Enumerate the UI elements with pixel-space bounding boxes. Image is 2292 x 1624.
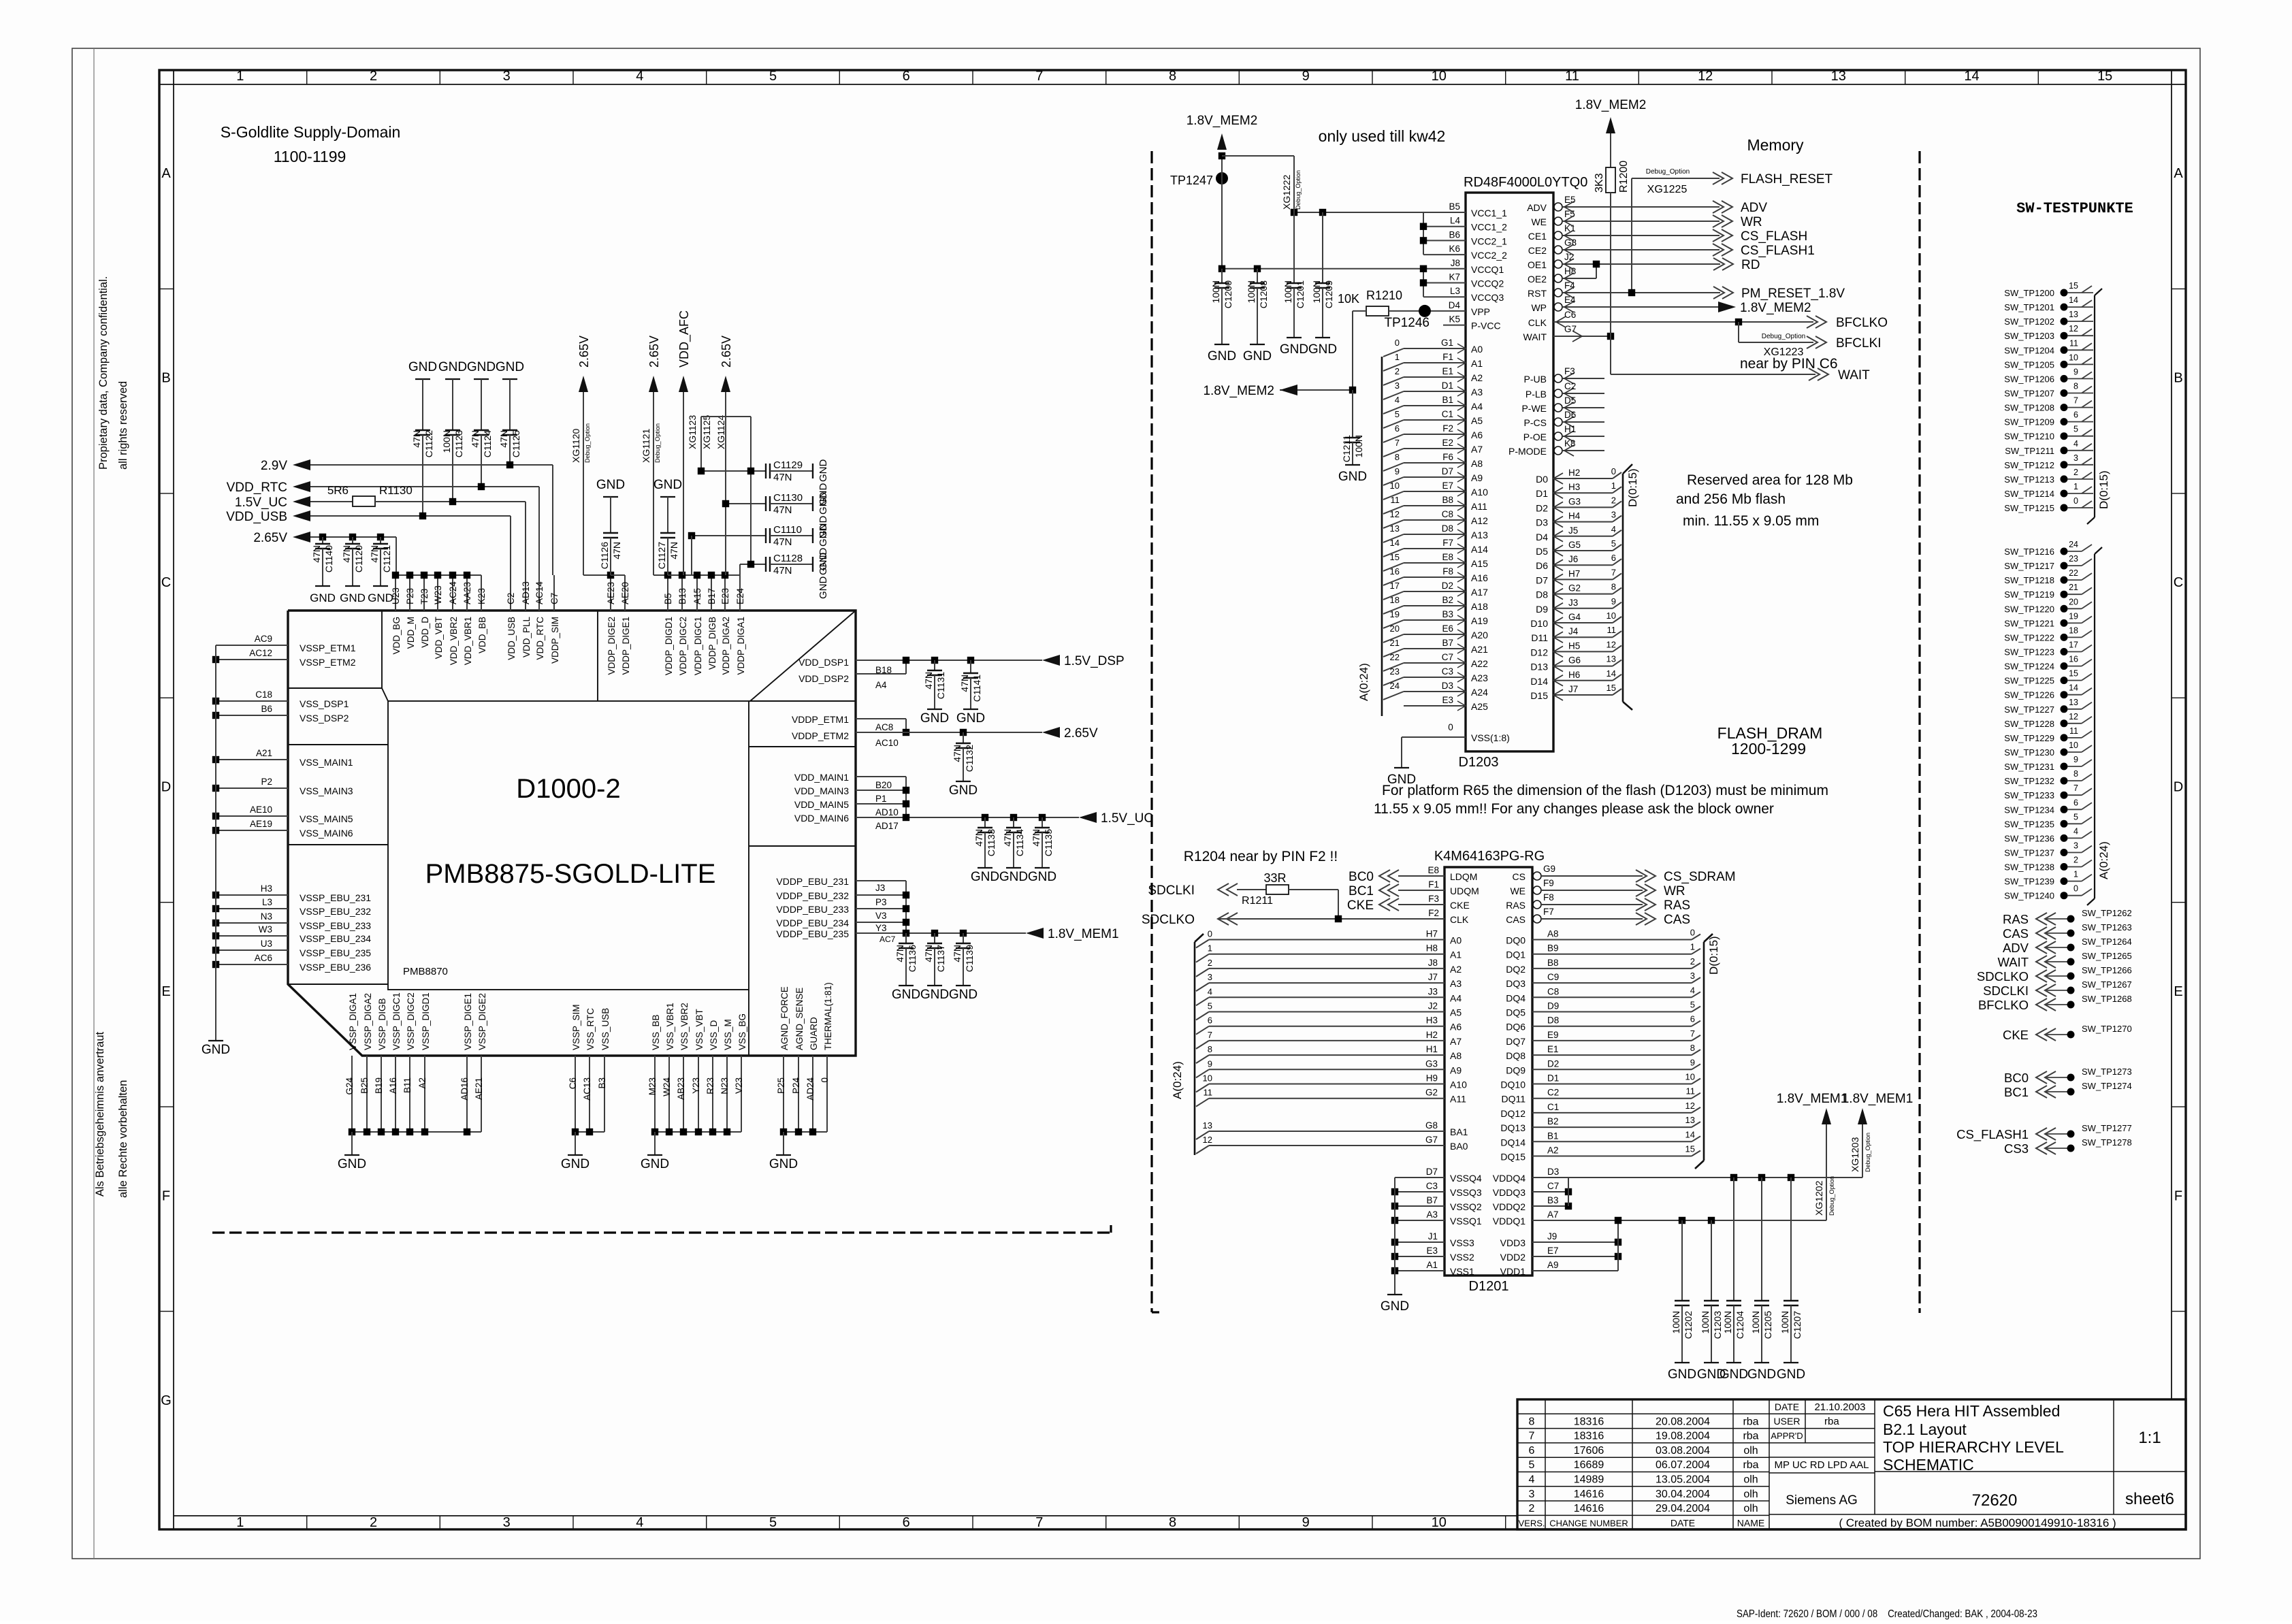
svg-text:C7: C7 — [1547, 1181, 1559, 1191]
svg-text:A4: A4 — [1450, 992, 1462, 1003]
svg-text:5: 5 — [769, 69, 777, 84]
capacitor C1135 — [1039, 814, 1046, 821]
svg-text:H3: H3 — [1568, 482, 1580, 492]
wire 2.9V — [310, 464, 553, 466]
ground C1201 — [1287, 337, 1302, 338]
svg-text:D3: D3 — [1547, 1167, 1559, 1177]
svg-text:D4: D4 — [1536, 532, 1548, 542]
svg-text:F6: F6 — [1442, 452, 1453, 462]
svg-text:CAS: CAS — [1664, 913, 1690, 927]
svg-text:SW_TP1273: SW_TP1273 — [2082, 1067, 2132, 1077]
ic internal partitions — [381, 611, 383, 688]
capacitor C1110 — [692, 535, 766, 536]
svg-text:Y23: Y23 — [691, 1077, 701, 1094]
svg-text:TP1246: TP1246 — [1384, 316, 1430, 330]
resistor R1130 — [310, 501, 353, 502]
ground bottom group — [351, 1132, 353, 1155]
svg-text:C8: C8 — [1442, 509, 1453, 519]
svg-text:14: 14 — [1607, 668, 1616, 679]
capacitor C1131 — [931, 657, 938, 664]
svg-text:4: 4 — [2073, 826, 2078, 836]
bus A(0:24) tp — [2094, 554, 2095, 898]
svg-text:B7: B7 — [1442, 638, 1453, 648]
svg-text:D5: D5 — [1564, 395, 1576, 406]
svg-text:F: F — [162, 1188, 170, 1203]
wire VDDP_DIGD junction — [668, 574, 740, 576]
svg-text:C2: C2 — [1564, 381, 1576, 391]
svg-text:G9: G9 — [1543, 864, 1555, 874]
debug option XG1222 — [1222, 155, 1294, 157]
svg-text:17: 17 — [1390, 581, 1400, 591]
svg-text:VDDP_ETM1: VDDP_ETM1 — [792, 714, 849, 725]
capacitor C1120 — [349, 534, 356, 540]
svg-text:AA23: AA23 — [462, 582, 472, 604]
svg-text:14616: 14616 — [1574, 1503, 1604, 1514]
wire WR out — [1562, 221, 1720, 222]
svg-text:Debug_Option: Debug_Option — [584, 423, 591, 463]
capacitor C1201 — [1293, 212, 1295, 283]
svg-text:BA0: BA0 — [1450, 1141, 1468, 1152]
svg-text:J2: J2 — [1428, 1001, 1438, 1011]
svg-text:K6: K6 — [1449, 244, 1460, 254]
svg-text:N23: N23 — [720, 1077, 730, 1094]
svg-text:5: 5 — [769, 1515, 777, 1530]
svg-text:J1: J1 — [1428, 1231, 1438, 1241]
svg-text:P-VCC: P-VCC — [1471, 321, 1501, 331]
svg-text:VSS_BG: VSS_BG — [737, 1013, 747, 1050]
ground C1129 — [812, 464, 813, 478]
svg-text:DATE: DATE — [1775, 1401, 1799, 1412]
svg-text:B19: B19 — [374, 1077, 384, 1094]
svg-text:F9: F9 — [1543, 878, 1554, 888]
capacitor C1204 — [1733, 1178, 1734, 1301]
svg-text:10: 10 — [1685, 1072, 1695, 1082]
svg-text:2: 2 — [1611, 495, 1616, 505]
svg-text:J4: J4 — [1568, 626, 1579, 636]
svg-text:8: 8 — [2073, 769, 2078, 779]
svg-text:VSS_RTC: VSS_RTC — [585, 1008, 596, 1050]
svg-text:CE2: CE2 — [1528, 245, 1547, 256]
svg-text:E3: E3 — [1426, 1246, 1438, 1256]
svg-text:VSS_M: VSS_M — [723, 1019, 733, 1050]
svg-text:K5: K5 — [1449, 314, 1460, 325]
svg-text:SW_TP1224: SW_TP1224 — [2004, 662, 2054, 672]
svg-text:B8: B8 — [1547, 958, 1559, 968]
wire P-VCC stub — [1443, 325, 1466, 326]
svg-text:F3: F3 — [1428, 894, 1439, 904]
wire RST PM_RESET — [1562, 292, 1720, 293]
svg-text:L3: L3 — [1450, 286, 1460, 296]
wire VCC1_1 net — [1423, 212, 1466, 213]
svg-text:C1135: C1135 — [1043, 829, 1054, 856]
svg-text:AC9: AC9 — [255, 634, 272, 644]
svg-text:SW_TP1229: SW_TP1229 — [2004, 733, 2054, 743]
svg-text:VDD_M: VDD_M — [406, 617, 416, 649]
svg-text:AB23: AB23 — [676, 1077, 686, 1100]
svg-text:14: 14 — [1964, 69, 1979, 84]
ground C1211 — [1345, 464, 1360, 466]
svg-text:AD10: AD10 — [875, 807, 899, 817]
svg-text:VSSP_EBU_236: VSSP_EBU_236 — [300, 962, 371, 973]
svg-text:10: 10 — [1432, 69, 1447, 84]
svg-text:J5: J5 — [1568, 525, 1578, 536]
svg-text:5R6: 5R6 — [327, 484, 349, 497]
svg-text:XG1120: XG1120 — [570, 428, 581, 463]
svg-text:SW_TP1234: SW_TP1234 — [2004, 805, 2054, 815]
svg-text:2: 2 — [1395, 366, 1400, 376]
svg-text:olh: olh — [1743, 1503, 1758, 1514]
svg-text:VDD_MAIN5: VDD_MAIN5 — [794, 799, 849, 810]
svg-text:10K: 10K — [1338, 292, 1359, 306]
svg-text:CKE: CKE — [2003, 1028, 2029, 1042]
capacitor C1139 — [960, 930, 967, 937]
svg-text:VDDP_ETM2: VDDP_ETM2 — [792, 730, 849, 741]
wire vdd tie — [1532, 1241, 1618, 1243]
svg-text:D8: D8 — [1547, 1016, 1559, 1026]
svg-text:14: 14 — [1685, 1129, 1695, 1139]
svg-text:3: 3 — [1611, 510, 1616, 520]
svg-text:A9: A9 — [1471, 472, 1483, 483]
svg-text:alle Rechte vorbehalten: alle Rechte vorbehalten — [117, 1080, 129, 1198]
svg-text:D7: D7 — [1536, 574, 1548, 585]
svg-text:C1124: C1124 — [482, 430, 493, 457]
svg-text:GND: GND — [561, 1157, 590, 1171]
wire VDDP_DIGE junction — [611, 574, 625, 576]
svg-text:B: B — [161, 371, 170, 386]
svg-text:B2: B2 — [1442, 595, 1453, 605]
svg-text:VDDP_DIGC1: VDDP_DIGC1 — [693, 617, 703, 675]
svg-text:4: 4 — [1529, 1474, 1535, 1486]
svg-text:VDDQ3: VDDQ3 — [1493, 1187, 1526, 1198]
svg-text:GND: GND — [892, 988, 920, 1002]
svg-text:J6: J6 — [1568, 554, 1578, 564]
svg-text:H3: H3 — [261, 883, 272, 894]
wire WAIT out — [1553, 336, 1611, 337]
svg-text:DQ2: DQ2 — [1506, 964, 1526, 975]
wire CS_FLASH1 out — [1562, 249, 1720, 250]
svg-text:all rights reserved: all rights reserved — [117, 381, 129, 470]
svg-text:E3: E3 — [1442, 695, 1453, 705]
svg-text:19.08.2004: 19.08.2004 — [1656, 1431, 1710, 1442]
svg-text:VDDP_EBU_232: VDDP_EBU_232 — [776, 890, 849, 901]
svg-text:C1126: C1126 — [599, 542, 610, 569]
net 2.65V right — [1042, 727, 1060, 738]
svg-text:PM_RESET_1.8V: PM_RESET_1.8V — [1741, 287, 1845, 301]
flash VSS pin — [1402, 736, 1466, 738]
capacitor C1205 — [1761, 1178, 1762, 1301]
svg-text:VSSP_DIGC1: VSSP_DIGC1 — [391, 992, 402, 1050]
svg-text:C6: C6 — [1564, 310, 1576, 320]
ground C1207 — [1783, 1362, 1798, 1363]
svg-text:B17: B17 — [707, 588, 717, 604]
svg-text:SW_TP1226: SW_TP1226 — [2004, 690, 2054, 700]
capacitor C1132 — [960, 729, 967, 736]
svg-text:Propietary data, Company confi: Propietary data, Company confidential. — [97, 276, 110, 470]
svg-text:DQ14: DQ14 — [1500, 1137, 1526, 1148]
svg-text:A24: A24 — [1471, 687, 1488, 698]
svg-text:100N: 100N — [1282, 280, 1293, 303]
svg-text:D8: D8 — [1442, 523, 1453, 534]
svg-text:D3: D3 — [1536, 517, 1548, 528]
svg-text:AD24: AD24 — [805, 1077, 816, 1101]
svg-text:VCC2_2: VCC2_2 — [1471, 250, 1507, 261]
svg-text:VSSQ3: VSSQ3 — [1450, 1187, 1482, 1198]
svg-text:C1: C1 — [1442, 409, 1453, 419]
svg-text:VDD_VBR1: VDD_VBR1 — [463, 617, 473, 665]
svg-text:XG1123: XG1123 — [687, 415, 698, 449]
svg-text:rba: rba — [1743, 1459, 1758, 1471]
svg-text:14: 14 — [2069, 683, 2078, 693]
svg-text:CS_FLASH1: CS_FLASH1 — [1741, 244, 1815, 258]
svg-text:GND: GND — [818, 524, 829, 547]
svg-text:VSS3: VSS3 — [1450, 1237, 1474, 1248]
svg-text:VSSP_DIGD1: VSSP_DIGD1 — [421, 992, 431, 1050]
svg-text:C1201: C1201 — [1295, 280, 1306, 308]
svg-text:GND: GND — [1720, 1367, 1748, 1382]
ic D1203 RD48F4000L0YTQ0 outline — [1466, 193, 1553, 751]
svg-text:R1204 near by PIN F2 !!: R1204 near by PIN F2 !! — [1184, 849, 1338, 864]
svg-text:GND: GND — [818, 459, 829, 483]
svg-text:0: 0 — [1208, 929, 1212, 939]
svg-text:B25: B25 — [359, 1077, 370, 1094]
svg-text:Siemens AG: Siemens AG — [1786, 1493, 1858, 1508]
svg-text:22: 22 — [2069, 568, 2078, 578]
svg-text:11: 11 — [1565, 69, 1579, 84]
svg-text:C2: C2 — [506, 593, 516, 604]
svg-text:18316: 18316 — [1574, 1431, 1604, 1442]
ground bottom group — [575, 1132, 576, 1155]
svg-text:C7: C7 — [1442, 652, 1453, 662]
svg-text:L3: L3 — [262, 897, 272, 907]
svg-text:9: 9 — [2073, 755, 2078, 764]
svg-text:C18: C18 — [255, 689, 272, 700]
svg-text:AC7: AC7 — [879, 935, 896, 944]
svg-text:GND: GND — [310, 591, 336, 604]
svg-text:SW_TP1274: SW_TP1274 — [2082, 1081, 2132, 1091]
svg-text:13: 13 — [1685, 1115, 1695, 1125]
svg-text:11: 11 — [1391, 495, 1400, 505]
svg-text:47N: 47N — [773, 472, 792, 483]
svg-text:1.5V_DSP: 1.5V_DSP — [1064, 654, 1125, 668]
svg-text:2: 2 — [1529, 1503, 1535, 1514]
svg-text:2: 2 — [1208, 958, 1212, 968]
svg-text:3: 3 — [1690, 971, 1695, 981]
svg-text:GUARD: GUARD — [809, 1017, 819, 1050]
svg-text:SW_TP1215: SW_TP1215 — [2004, 503, 2054, 513]
svg-text:A15: A15 — [692, 588, 703, 604]
svg-text:A7: A7 — [1471, 444, 1483, 455]
svg-text:A21: A21 — [1471, 644, 1488, 655]
svg-text:SW_TP1230: SW_TP1230 — [2004, 747, 2054, 758]
svg-text:A1: A1 — [1426, 1260, 1438, 1270]
svg-text:VSSP_DIGA2: VSSP_DIGA2 — [363, 993, 373, 1050]
capacitor C1207 — [1790, 1178, 1792, 1301]
svg-text:GND: GND — [818, 576, 829, 600]
svg-text:GND: GND — [467, 360, 496, 374]
ground C1121 — [380, 549, 381, 586]
svg-text:D7: D7 — [1426, 1167, 1438, 1177]
svg-text:A11: A11 — [1471, 501, 1487, 512]
testpoint TP1246 — [1419, 305, 1431, 317]
svg-text:AC6: AC6 — [255, 953, 272, 963]
svg-text:AC8: AC8 — [875, 722, 893, 732]
left gnd bus — [215, 645, 216, 1041]
ground C1209 — [1315, 337, 1330, 338]
svg-text:A9: A9 — [1547, 1260, 1559, 1270]
svg-text:1.8V_MEM1: 1.8V_MEM1 — [1048, 927, 1119, 941]
svg-text:2: 2 — [2073, 468, 2078, 477]
svg-text:6: 6 — [2073, 798, 2078, 807]
svg-text:RST: RST — [1528, 288, 1547, 299]
ground C1141 — [970, 678, 971, 709]
svg-text:2.65V: 2.65V — [577, 336, 591, 368]
svg-text:VDDP_EBU_231: VDDP_EBU_231 — [776, 876, 849, 887]
svg-text:D1203: D1203 — [1459, 755, 1499, 770]
svg-text:U3: U3 — [261, 939, 272, 949]
sdram A pins — [1209, 939, 1444, 941]
svg-text:Debug_Option: Debug_Option — [654, 423, 661, 463]
svg-text:1.5V_UC: 1.5V_UC — [235, 496, 287, 510]
svg-text:B1: B1 — [1547, 1131, 1559, 1141]
svg-text:GND: GND — [340, 591, 366, 604]
svg-text:G4: G4 — [1568, 612, 1581, 622]
svg-text:6: 6 — [903, 69, 910, 84]
svg-text:J8: J8 — [1428, 958, 1438, 968]
svg-text:VDDP_DIGD1: VDDP_DIGD1 — [664, 617, 674, 675]
svg-text:15: 15 — [1607, 683, 1616, 693]
svg-text:C8: C8 — [1547, 986, 1559, 996]
svg-text:47N: 47N — [668, 542, 679, 559]
svg-text:DQ11: DQ11 — [1501, 1094, 1526, 1105]
svg-text:V23: V23 — [734, 1077, 744, 1094]
svg-text:B20: B20 — [875, 780, 892, 790]
svg-text:47N: 47N — [773, 536, 792, 548]
svg-text:7: 7 — [2073, 783, 2078, 793]
svg-text:C1205: C1205 — [1762, 1311, 1773, 1339]
svg-text:5: 5 — [1395, 409, 1400, 419]
svg-text:A8: A8 — [1547, 929, 1559, 939]
svg-text:VDDQ2: VDDQ2 — [1493, 1201, 1526, 1212]
svg-text:1.8V_MEM1: 1.8V_MEM1 — [1777, 1092, 1848, 1106]
svg-text:C1141: C1141 — [971, 675, 982, 702]
svg-text:VCC1_2: VCC1_2 — [1471, 222, 1507, 233]
svg-text:B6: B6 — [1449, 229, 1460, 240]
svg-text:E7: E7 — [1442, 481, 1453, 491]
svg-text:D(0:15): D(0:15) — [1626, 468, 1639, 507]
ground C1110 — [812, 528, 813, 543]
wire vddq tie — [1532, 1177, 1568, 1178]
bus D(0:15) sdram — [1703, 942, 1705, 1160]
svg-text:VSSP_EBU_231: VSSP_EBU_231 — [300, 892, 371, 903]
svg-text:4: 4 — [1611, 524, 1616, 534]
svg-text:1: 1 — [236, 69, 244, 84]
svg-text:E24: E24 — [735, 587, 745, 604]
svg-text:C3: C3 — [1442, 666, 1453, 677]
svg-text:3: 3 — [2073, 841, 2078, 851]
svg-text:GND: GND — [1668, 1367, 1696, 1382]
wire VDD_RTC — [310, 486, 539, 487]
svg-text:PMB8870: PMB8870 — [403, 966, 448, 977]
svg-text:H3: H3 — [1426, 1016, 1438, 1026]
svg-text:SW_TP1278: SW_TP1278 — [2082, 1137, 2132, 1148]
svg-text:A(0:24): A(0:24) — [1357, 663, 1370, 701]
svg-text:GND: GND — [653, 478, 682, 492]
svg-text:SW_TP1216: SW_TP1216 — [2004, 547, 2054, 557]
svg-text:R23: R23 — [705, 1077, 715, 1094]
resistor R1200 — [1610, 133, 1611, 167]
svg-text:GND: GND — [949, 783, 978, 798]
svg-text:F: F — [2174, 1188, 2182, 1203]
svg-text:P25: P25 — [776, 1077, 786, 1094]
svg-text:K4M64163PG-RG: K4M64163PG-RG — [1434, 849, 1545, 864]
svg-text:12: 12 — [1607, 639, 1616, 649]
wire ADV out — [1562, 206, 1720, 208]
svg-text:G3: G3 — [1568, 496, 1581, 506]
svg-text:R1200: R1200 — [1618, 161, 1630, 193]
svg-text:GND: GND — [920, 711, 949, 726]
wire r1210 left — [1353, 310, 1366, 312]
svg-text:DQ12: DQ12 — [1500, 1108, 1526, 1119]
svg-text:WE: WE — [1531, 216, 1547, 227]
wire VCCQ3 — [1423, 296, 1466, 297]
wire gnd bus bottom group — [575, 1131, 604, 1133]
svg-text:E8: E8 — [1442, 552, 1453, 562]
svg-text:SW_TP1202: SW_TP1202 — [2004, 316, 2054, 327]
capacitor C1133 — [982, 814, 988, 821]
svg-text:SW_TP1225: SW_TP1225 — [2004, 676, 2054, 686]
svg-text:H4: H4 — [1568, 511, 1581, 521]
svg-text:20: 20 — [2069, 597, 2078, 606]
svg-text:P-MODE: P-MODE — [1508, 446, 1547, 457]
svg-text:6: 6 — [903, 1515, 910, 1530]
net 1.8V_MEM1 right — [1026, 928, 1044, 939]
svg-text:VDDP_DIGA2: VDDP_DIGA2 — [721, 617, 731, 675]
svg-text:7: 7 — [1690, 1028, 1695, 1039]
svg-text:AC12: AC12 — [249, 648, 272, 658]
svg-text:8: 8 — [1611, 582, 1616, 592]
capacitor C1209 — [1322, 212, 1323, 283]
svg-text:CAS: CAS — [1506, 914, 1526, 925]
svg-text:3: 3 — [503, 1515, 511, 1530]
svg-text:AC10: AC10 — [875, 738, 899, 748]
svg-text:22: 22 — [1390, 652, 1400, 662]
svg-text:E9: E9 — [1547, 1030, 1559, 1040]
svg-text:VDDP_EBU_234: VDDP_EBU_234 — [776, 917, 849, 928]
net SDCLKI — [1218, 883, 1229, 896]
svg-text:47N: 47N — [773, 504, 792, 516]
svg-text:1100-1199: 1100-1199 — [274, 148, 346, 165]
svg-text:SW_TP1238: SW_TP1238 — [2004, 862, 2054, 873]
svg-text:A9: A9 — [1450, 1065, 1462, 1075]
svg-text:D10: D10 — [1530, 618, 1548, 629]
svg-text:GND: GND — [641, 1157, 669, 1171]
svg-text:BC0: BC0 — [1349, 870, 1374, 884]
net 1.8V_MEM2 top right — [1606, 117, 1615, 133]
svg-text:12: 12 — [1685, 1101, 1695, 1111]
svg-text:Debug_Option: Debug_Option — [1865, 1133, 1871, 1172]
svg-text:3K3: 3K3 — [1594, 173, 1605, 193]
svg-text:SW_TP1267: SW_TP1267 — [2082, 979, 2132, 990]
svg-text:13: 13 — [1607, 654, 1616, 664]
capacitor C1140 — [319, 534, 326, 540]
svg-text:14989: 14989 — [1574, 1474, 1604, 1486]
svg-text:GND: GND — [338, 1157, 366, 1171]
svg-text:14: 14 — [2069, 295, 2078, 305]
svg-text:8: 8 — [1169, 69, 1176, 84]
svg-text:H2: H2 — [1426, 1030, 1438, 1040]
svg-text:E23: E23 — [720, 588, 730, 604]
svg-text:VDDQ4: VDDQ4 — [1493, 1173, 1526, 1184]
